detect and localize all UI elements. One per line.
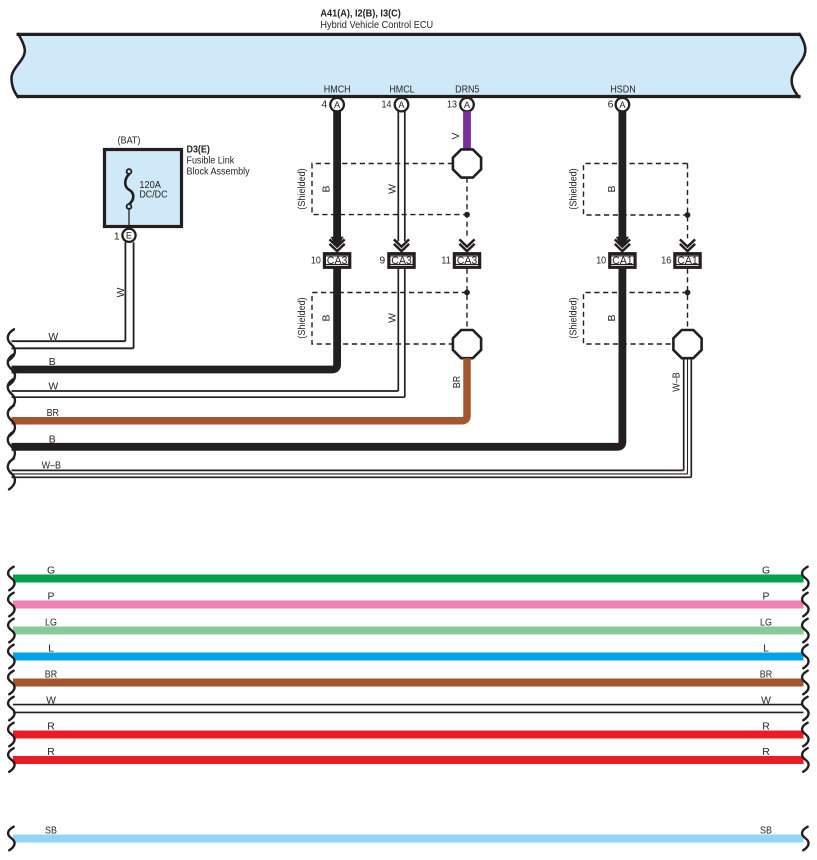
svg-text:LG: LG bbox=[760, 617, 772, 628]
wire W from fusible link horizontal bbox=[12, 341, 134, 348]
label W-B rotated bbox=[672, 372, 683, 391]
svg-text:BR: BR bbox=[47, 408, 60, 419]
wire W HMCL lower segment bbox=[12, 269, 405, 398]
arrow into 10 CA1 bbox=[615, 237, 630, 251]
wire W-B from lower right octagon bbox=[12, 358, 692, 477]
svg-text:W: W bbox=[46, 695, 56, 706]
ECU subtitle Hybrid Vehicle Control ECU bbox=[320, 20, 433, 31]
wire B HMCH lower segment bending left bbox=[12, 268, 338, 370]
svg-text:B: B bbox=[322, 185, 333, 192]
svg-text:CA1: CA1 bbox=[612, 255, 633, 267]
lower right shield dashed box bbox=[584, 293, 688, 345]
ECU band left torn edge bbox=[11, 33, 24, 98]
svg-text:Fusible Link: Fusible Link bbox=[187, 155, 235, 166]
svg-text:W: W bbox=[387, 184, 398, 194]
label BR rotated bbox=[452, 375, 463, 388]
svg-text:W: W bbox=[48, 382, 58, 393]
junction dot lower left bbox=[464, 290, 470, 296]
pin 4 connector A terminal bbox=[321, 98, 343, 112]
junction dot upper right bbox=[685, 212, 691, 218]
svg-text:DC/DC: DC/DC bbox=[139, 189, 168, 200]
label (Shielded) upper left bbox=[297, 168, 308, 209]
svg-text:CA1: CA1 bbox=[677, 255, 698, 267]
svg-text:(Shielded): (Shielded) bbox=[297, 297, 308, 338]
ECU band A41(A)/I2(B)/I3(C) fill bbox=[11, 33, 805, 98]
lower left shield dashed box bbox=[312, 293, 467, 345]
wire B HMCH upper segment bbox=[333, 111, 341, 238]
ECU title A41(A), I2(B), I3(C) bbox=[320, 8, 400, 19]
svg-text:4: 4 bbox=[321, 100, 327, 111]
svg-text:9: 9 bbox=[379, 255, 385, 266]
label W-B left edge bbox=[42, 460, 61, 471]
svg-text:W: W bbox=[761, 695, 771, 706]
junction dot lower right bbox=[685, 290, 691, 296]
label (Shielded) lower left bbox=[297, 297, 308, 338]
svg-text:A41(A), I2(B), I3(C): A41(A), I2(B), I3(C) bbox=[320, 8, 400, 19]
svg-text:14: 14 bbox=[382, 100, 392, 111]
svg-text:W: W bbox=[116, 287, 127, 297]
svg-text:D3(E): D3(E) bbox=[187, 144, 210, 155]
svg-text:BR: BR bbox=[452, 375, 463, 388]
label (Shielded) upper right bbox=[568, 168, 579, 209]
label B lower left bbox=[322, 314, 333, 321]
wire break at BR bbox=[8, 405, 15, 436]
wire break at B bbox=[8, 354, 15, 385]
svg-text:R: R bbox=[762, 721, 770, 732]
pin name DRN5 bbox=[455, 85, 479, 96]
fusible link block label (BAT) bbox=[118, 136, 141, 147]
ECU band right torn edge bbox=[792, 33, 806, 98]
svg-text:1: 1 bbox=[114, 232, 120, 243]
bottom harness wire L bbox=[8, 643, 809, 668]
svg-text:HMCL: HMCL bbox=[389, 85, 414, 96]
arrow into 16 CA1 bbox=[680, 239, 695, 251]
svg-text:DRN5: DRN5 bbox=[455, 85, 479, 96]
svg-text:W: W bbox=[387, 313, 398, 323]
svg-text:P: P bbox=[763, 591, 770, 602]
wire BR from lower left octagon bbox=[12, 358, 468, 421]
arrow into 10 CA3 bbox=[330, 237, 345, 251]
pin 14 connector A terminal bbox=[382, 98, 409, 112]
svg-text:B: B bbox=[607, 185, 618, 192]
svg-text:B: B bbox=[49, 357, 56, 368]
bottom harness wire LG bbox=[8, 617, 809, 642]
svg-text:B: B bbox=[49, 435, 56, 446]
svg-text:R: R bbox=[47, 721, 55, 732]
dashed drain below DRN5 octagon bbox=[466, 178, 468, 239]
dashed drain 11 CA3 to octagon bbox=[466, 269, 468, 331]
svg-text:W–B: W–B bbox=[672, 372, 683, 391]
label BR left edge bbox=[47, 408, 60, 419]
wire B HSDN upper segment bbox=[619, 111, 627, 238]
upper right shield dashed box bbox=[584, 164, 688, 216]
svg-text:10: 10 bbox=[311, 255, 321, 266]
pin name HMCH bbox=[324, 85, 351, 96]
svg-text:G: G bbox=[762, 565, 770, 576]
label W upper left bbox=[387, 184, 398, 194]
label B lower left edge bbox=[49, 435, 56, 446]
svg-text:A: A bbox=[334, 100, 341, 110]
label W left edge bbox=[48, 382, 58, 393]
ECU band bottom border bbox=[18, 95, 801, 98]
arrow into 11 CA3 bbox=[459, 239, 474, 251]
bottom harness wire SB bbox=[8, 825, 809, 850]
bottom harness wire W bbox=[8, 695, 809, 720]
svg-text:A: A bbox=[619, 100, 626, 110]
wire break at W-B bbox=[8, 458, 15, 489]
label W rotated (fusible link wire) bbox=[116, 287, 127, 297]
wire W HMCL upper segment bbox=[398, 111, 405, 241]
svg-text:R: R bbox=[47, 747, 55, 758]
fuse value label 120A DC/DC bbox=[139, 180, 168, 201]
arrow into 9 CA3 bbox=[394, 239, 409, 251]
pin 6 connector A terminal bbox=[608, 98, 630, 112]
junction dot upper left bbox=[464, 212, 470, 218]
svg-text:Hybrid Vehicle Control ECU: Hybrid Vehicle Control ECU bbox=[320, 20, 433, 31]
connector box 11 CA3 bbox=[441, 254, 479, 268]
svg-text:L: L bbox=[763, 643, 769, 654]
label B left edge bbox=[49, 357, 56, 368]
dashed drain 16 CA1 to octagon bbox=[687, 269, 689, 331]
svg-text:(BAT): (BAT) bbox=[118, 136, 141, 147]
shield octagon lower left bbox=[453, 330, 481, 358]
connector box 9 CA3 bbox=[379, 254, 414, 268]
svg-text:(Shielded): (Shielded) bbox=[568, 168, 579, 209]
pin 1 terminal E bbox=[114, 229, 136, 243]
bottom harness wire BR bbox=[8, 669, 809, 694]
svg-text:CA3: CA3 bbox=[391, 255, 412, 267]
svg-text:LG: LG bbox=[45, 617, 57, 628]
svg-text:W–B: W–B bbox=[42, 460, 61, 471]
svg-text:BR: BR bbox=[760, 669, 773, 680]
upper left shield dashed box bbox=[312, 164, 467, 215]
svg-text:A: A bbox=[398, 100, 405, 110]
wire break at W bbox=[8, 329, 15, 360]
wire W from fusible link vertical bbox=[125, 242, 133, 348]
svg-text:CA3: CA3 bbox=[457, 255, 478, 267]
dashed drain right upper bbox=[687, 164, 689, 239]
svg-text:B: B bbox=[322, 314, 333, 321]
pin 13 connector A terminal bbox=[447, 98, 474, 112]
svg-text:Block Assembly: Block Assembly bbox=[187, 166, 251, 177]
pin name HSDN bbox=[610, 85, 635, 96]
label B upper left bbox=[322, 185, 333, 192]
svg-text:V: V bbox=[451, 132, 462, 139]
label V rotated bbox=[451, 132, 462, 139]
label (Shielded) lower right bbox=[568, 297, 579, 338]
svg-text:E: E bbox=[126, 231, 132, 241]
svg-text:HMCH: HMCH bbox=[324, 85, 351, 96]
connector box 10 CA1 bbox=[596, 254, 635, 268]
ECU band top border bbox=[17, 33, 801, 36]
bottom harness wire G bbox=[8, 565, 809, 590]
wire V DRN5 violet bbox=[463, 111, 471, 151]
wire break at B lower bbox=[8, 431, 15, 462]
bottom harness wire R first bbox=[8, 721, 809, 746]
svg-text:G: G bbox=[47, 565, 55, 576]
svg-text:A: A bbox=[464, 100, 471, 110]
wire B HSDN lower segment bending left bbox=[12, 268, 623, 447]
svg-text:SB: SB bbox=[45, 825, 57, 836]
shield octagon lower right bbox=[673, 330, 701, 358]
svg-text:R: R bbox=[762, 747, 770, 758]
pin name HMCL bbox=[389, 85, 414, 96]
svg-text:L: L bbox=[48, 643, 54, 654]
svg-text:B: B bbox=[607, 314, 618, 321]
wire break at W lower bbox=[8, 379, 15, 410]
svg-text:16: 16 bbox=[661, 255, 671, 266]
fusible link block D3(E) box bbox=[105, 150, 182, 227]
connector box 16 CA1 bbox=[661, 254, 700, 268]
label W lower left bbox=[387, 313, 398, 323]
svg-text:HSDN: HSDN bbox=[610, 85, 635, 96]
label B upper right bbox=[607, 185, 618, 192]
svg-text:P: P bbox=[48, 591, 55, 602]
svg-text:W: W bbox=[48, 332, 58, 343]
svg-text:SB: SB bbox=[760, 825, 772, 836]
svg-text:10: 10 bbox=[596, 255, 606, 266]
svg-text:(Shielded): (Shielded) bbox=[568, 297, 579, 338]
label B lower right bbox=[607, 314, 618, 321]
fuse 120A DC/DC symbol bbox=[125, 169, 133, 228]
svg-text:6: 6 bbox=[608, 100, 614, 111]
svg-text:CA3: CA3 bbox=[327, 255, 348, 267]
svg-text:11: 11 bbox=[441, 255, 450, 266]
svg-text:BR: BR bbox=[45, 669, 58, 680]
svg-text:(Shielded): (Shielded) bbox=[297, 168, 308, 209]
label W (fusible link wire) bbox=[48, 332, 58, 343]
bottom harness wire P bbox=[8, 591, 809, 616]
connector box 10 CA3 bbox=[311, 254, 350, 268]
bottom harness wire R second bbox=[8, 747, 809, 772]
shield octagon at DRN5 bbox=[453, 149, 481, 177]
svg-text:13: 13 bbox=[447, 100, 457, 111]
component name D3(E) Fusible Link Block Assembly bbox=[187, 144, 251, 177]
